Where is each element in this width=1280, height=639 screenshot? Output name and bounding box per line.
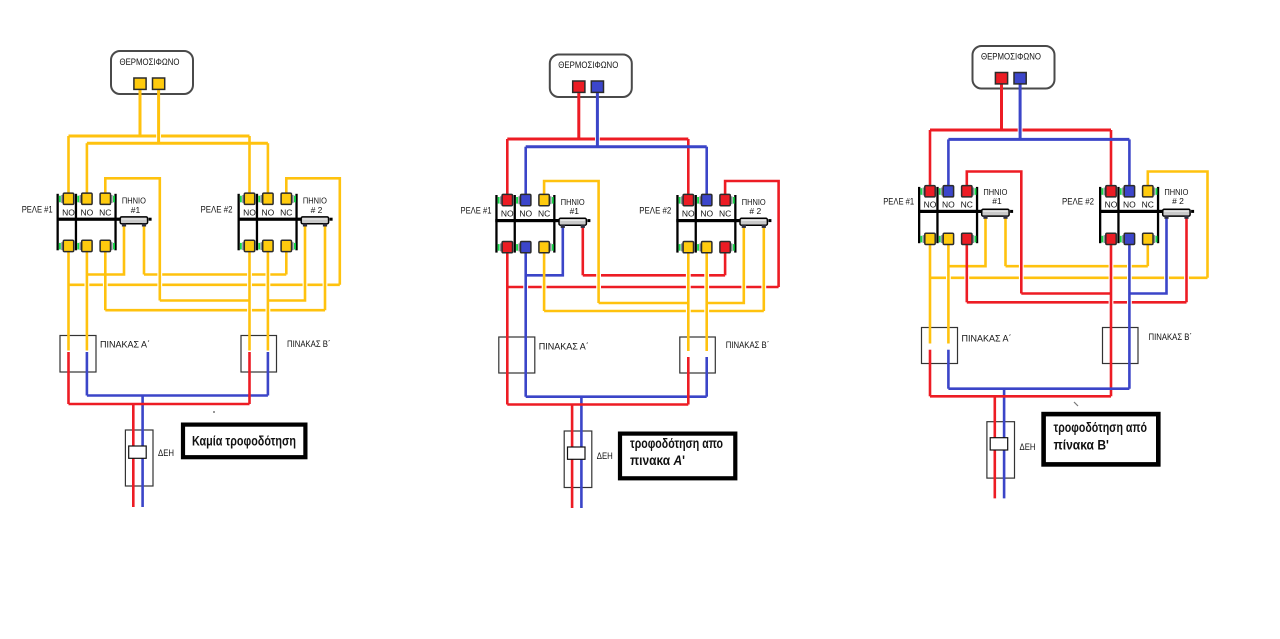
wire H2 drop to relay2 NO2 P1 (267, 143, 270, 197)
stray mark P1 (213, 411, 215, 413)
wire NC1 loop bottom run P1 (160, 299, 250, 302)
wire NC1 loop bottom run P3 (1021, 292, 1111, 295)
wire coil1 left branch P1 (87, 225, 124, 275)
wire NC1 interlock loop P2 (544, 181, 599, 303)
svg-text:ΠΙΝΑΚΑΣ Α΄: ΠΙΝΑΚΑΣ Α΄ (539, 342, 589, 352)
wire thermo right lead P2 (596, 88, 599, 147)
wire relay2 bottom2 to board B P3 (1128, 240, 1131, 389)
wire red drop to DEH P3 (993, 396, 996, 498)
coil PINIO#2 P1 (301, 217, 332, 227)
svg-text:NO: NO (81, 207, 94, 217)
wire thermo right lead P3 (1019, 80, 1022, 140)
node PINAKAS B box P2 (680, 337, 716, 373)
thermo terminal 1 P3 (995, 73, 1007, 84)
coil PINIO#1 P2 (559, 218, 590, 228)
wire board B red stub P2 (687, 357, 690, 405)
wire thermo left lead P2 (577, 88, 580, 139)
DEH meter box P1 (125, 430, 153, 486)
svg-text:NC: NC (719, 209, 731, 219)
svg-text:NO: NO (942, 199, 955, 209)
coil PINIO#2 P2 (740, 218, 771, 228)
wire board A blue out P1 (86, 352, 89, 396)
svg-text:ΡΕΛΕ #2: ΡΕΛΕ #2 (1062, 197, 1094, 207)
wire NC2 loop long run P2 (507, 286, 778, 289)
wire thermo left lead P1 (139, 85, 142, 136)
wire H2 top bus P2 (526, 145, 707, 148)
wire H2 top bus P3 (948, 138, 1129, 141)
svg-text:NO: NO (700, 209, 713, 219)
svg-text:ΡΕΛΕ #2: ΡΕΛΕ #2 (639, 205, 671, 215)
DEH meter window P3 (990, 438, 1008, 450)
svg-text:NC: NC (538, 209, 550, 219)
coil PINIO#1 P1 (120, 217, 151, 227)
svg-text:πίνακα Β': πίνακα Β' (1054, 437, 1109, 453)
thermo terminal 2 P1 (153, 78, 165, 89)
wire H1 drop to relay2 NO1 P2 (687, 139, 690, 198)
wire NC2 loop long run P3 (930, 276, 1208, 279)
wire relay2 bottom2 to board B P2 (705, 249, 708, 352)
svg-text:NO: NO (243, 207, 256, 217)
caption box P3 (1044, 414, 1159, 464)
wire relay1 bottom2 to board A P3 (947, 240, 950, 343)
relay2 P1 (238, 193, 302, 252)
wire coil1 right to relay2 NC bottom P1 (143, 225, 146, 275)
wire H2 drop to relay1 NO2 P3 (947, 139, 950, 189)
svg-text:ΡΕΛΕ #1: ΡΕΛΕ #1 (22, 204, 53, 214)
wire NC1 interlock loop P1 (105, 178, 160, 300)
wire H2 drop to relay1 NO2 P2 (524, 147, 527, 199)
wire board B blue out P1 (267, 352, 270, 396)
svg-text:NO: NO (62, 207, 75, 217)
wire NC2 interlock loop P2 (725, 181, 779, 287)
relay2 P3 (1099, 186, 1163, 245)
wire blue drop to DEH P2 (580, 397, 583, 508)
svg-text:ΘΕΡΜΟΣΙΦΩΝΟ: ΘΕΡΜΟΣΙΦΩΝΟ (120, 57, 180, 67)
svg-text:ΠΙΝΑΚΑΣ Α΄: ΠΙΝΑΚΑΣ Α΄ (100, 340, 150, 350)
stray mark P3 (1074, 402, 1078, 406)
svg-text:τροφοδότηση από: τροφοδότηση από (1054, 419, 1148, 435)
node PINAKAS B box P1 (241, 336, 277, 373)
wire H1 drop to relay2 NO1 P3 (1110, 130, 1113, 190)
thermo terminal 2 P2 (591, 81, 603, 92)
svg-text:# 2: # 2 (311, 205, 323, 215)
wire board B blue stub P2 (705, 357, 708, 397)
svg-text:ΔΕΗ: ΔΕΗ (158, 448, 174, 458)
wire H2 drop to relay2 NO2 P3 (1128, 139, 1131, 189)
wire coil2 left branch P3 (1129, 217, 1166, 294)
wire board A blue stub P3 (947, 350, 950, 389)
wire H1 drop to relay2 NO1 P1 (248, 136, 251, 197)
wire blue bottom bus P2 (526, 395, 707, 398)
coil PINIO#2 P3 (1163, 209, 1194, 219)
caption box P2 (620, 434, 735, 479)
wire NC2 interlock loop P1 (286, 178, 340, 284)
svg-text:NC: NC (961, 199, 973, 209)
svg-text:Καμία τροφοδότηση: Καμία τροφοδότηση (192, 433, 296, 449)
wire relay1 bottom1 to board A P2 (506, 249, 509, 405)
svg-text:#1: #1 (992, 196, 1002, 206)
wire coil2 left branch P1 (268, 225, 305, 301)
wire board A red out P1 (67, 352, 70, 404)
wire NC1 bottom to coil2 right P2 (543, 249, 546, 312)
relay2 P2 (676, 194, 740, 252)
wire red bottom bus P2 (507, 403, 688, 406)
wire H1 drop to relay1 NO1 P1 (67, 136, 70, 197)
svg-text:# 2: # 2 (749, 206, 761, 216)
wire board A red stub P3 (929, 350, 932, 397)
wire red bottom bus P3 (930, 395, 1111, 398)
node PINAKAS A box P2 (499, 337, 535, 373)
relay1 P3 (918, 186, 982, 245)
wire red drop to DEH P2 (571, 405, 574, 509)
wire NC1 bottom to coil2 right P1 (104, 247, 107, 310)
node PINAKAS A box P1 (60, 336, 96, 373)
wire H1 drop to relay1 NO1 P3 (929, 130, 932, 190)
wire thermo right lead P1 (157, 85, 160, 143)
DEH meter box P2 (564, 431, 592, 488)
svg-text:NO: NO (682, 209, 695, 219)
wire relay2 bottom1 to board B P3 (1110, 240, 1113, 396)
wire thermo left lead P3 (1000, 80, 1003, 131)
svg-text:NC: NC (280, 207, 292, 217)
DEH meter window P2 (568, 447, 586, 459)
svg-text:ΔΕΗ: ΔΕΗ (1020, 442, 1036, 452)
svg-text:ΡΕΛΕ #1: ΡΕΛΕ #1 (461, 205, 492, 215)
wire relay1 bottom1 to board A P3 (929, 240, 932, 343)
wire coil1 left branch P3 (948, 217, 985, 266)
svg-text:ΡΕΛΕ #2: ΡΕΛΕ #2 (201, 204, 233, 214)
svg-text:#1: #1 (570, 206, 580, 216)
wire blue bottom bus P3 (948, 387, 1129, 390)
wire blue bottom bus P1 (87, 394, 268, 397)
svg-text:πινακα Α': πινακα Α' (630, 452, 685, 468)
coil PINIO#1 P3 (982, 209, 1013, 219)
wire coil1 right to relay2 NC bottom P3 (1004, 217, 1007, 266)
thermosifono box P1 (111, 51, 193, 94)
wire relay2 bottom1 to board B P1 (248, 247, 251, 350)
wire coil1 right to relay2 NC bottom P2 (581, 226, 584, 275)
wire blue drop to DEH P3 (1003, 389, 1006, 499)
wire NC2 loop long run P1 (69, 283, 340, 286)
thermosifono box P2 (550, 55, 632, 98)
svg-text:ΘΕΡΜΟΣΙΦΩΝΟ: ΘΕΡΜΟΣΙΦΩΝΟ (981, 52, 1041, 62)
wire blue drop to DEH P1 (141, 396, 144, 508)
wire NC1 interlock loop P3 (967, 172, 1022, 294)
svg-text:# 2: # 2 (1172, 196, 1184, 206)
wire relay2 bottom1 to board B P2 (687, 249, 690, 352)
svg-text:NO: NO (924, 199, 937, 209)
wire relay1 bottom1 to board A P1 (67, 247, 70, 350)
relay1 P1 (57, 193, 121, 252)
svg-text:ΡΕΛΕ #1: ΡΕΛΕ #1 (883, 197, 914, 207)
svg-text:ΠΙΝΑΚΑΣ Β΄: ΠΙΝΑΚΑΣ Β΄ (726, 340, 770, 350)
wire H2 top bus P1 (87, 142, 268, 145)
svg-text:ΠΙΝΑΚΑΣ Β΄: ΠΙΝΑΚΑΣ Β΄ (1149, 332, 1193, 342)
wire H1 top bus P3 (930, 129, 1111, 132)
svg-text:NO: NO (519, 209, 532, 219)
thermo terminal 1 P2 (573, 81, 585, 92)
DEH meter box P3 (987, 422, 1015, 478)
DEH meter window P1 (129, 446, 147, 458)
wire NC1 loop bottom run P2 (599, 302, 689, 305)
svg-text:NO: NO (262, 207, 275, 217)
wire H1 drop to relay1 NO1 P2 (506, 139, 509, 198)
caption box P1 (183, 425, 305, 458)
wire NC2 interlock loop P3 (1148, 172, 1208, 278)
wire red bottom bus P1 (69, 403, 250, 406)
wire H1 top bus P2 (507, 138, 688, 141)
svg-text:#1: #1 (131, 205, 141, 215)
svg-text:ΘΕΡΜΟΣΙΦΩΝΟ: ΘΕΡΜΟΣΙΦΩΝΟ (558, 60, 618, 70)
thermo terminal 1 P1 (134, 78, 146, 89)
node PINAKAS A box P3 (922, 328, 958, 364)
svg-text:NO: NO (501, 209, 514, 219)
wire H1 top bus P1 (69, 135, 250, 138)
svg-text:τροφοδότηση απο: τροφοδότηση απο (630, 435, 723, 451)
svg-text:ΠΙΝΑΚΑΣ Β΄: ΠΙΝΑΚΑΣ Β΄ (287, 339, 331, 349)
wire relay1 bottom2 to board A P2 (524, 249, 527, 397)
relay1 P2 (495, 194, 559, 252)
wire H2 drop to relay1 NO2 P1 (86, 143, 89, 197)
wire H2 drop to relay2 NO2 P2 (705, 147, 708, 199)
wire relay2 bottom2 to board B P1 (267, 247, 270, 350)
svg-text:NC: NC (99, 207, 111, 217)
node PINAKAS B box P3 (1103, 328, 1139, 364)
thermo terminal 2 P3 (1014, 73, 1026, 84)
wire board B red out P1 (248, 352, 251, 404)
svg-text:NC: NC (1142, 199, 1154, 209)
svg-text:NO: NO (1105, 199, 1118, 209)
svg-text:ΔΕΗ: ΔΕΗ (597, 451, 613, 461)
wire coil2 left branch P2 (707, 226, 744, 303)
thermosifono box P3 (973, 46, 1055, 89)
svg-text:ΠΙΝΑΚΑΣ Α΄: ΠΙΝΑΚΑΣ Α΄ (962, 334, 1012, 344)
wire NC1 bottom to coil2 right P3 (965, 240, 968, 302)
wire red drop to DEH P1 (132, 404, 135, 507)
wire relay1 bottom2 to board A P1 (86, 247, 89, 350)
svg-text:NO: NO (1123, 199, 1136, 209)
wire coil1 left branch P2 (526, 226, 563, 275)
